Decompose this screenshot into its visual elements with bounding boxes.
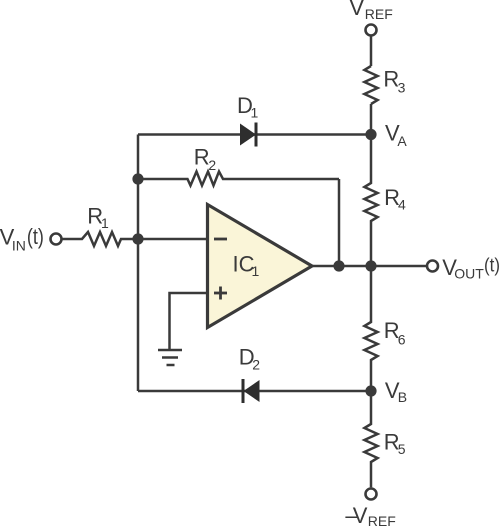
- svg-text:3: 3: [398, 80, 406, 96]
- label VIN(t): [0, 224, 44, 254]
- label R4: [384, 185, 406, 213]
- svg-text:IN: IN: [12, 237, 26, 253]
- svg-text:REF: REF: [365, 6, 393, 22]
- label R6: [384, 318, 406, 348]
- wire output node to R6, resistor R6, to node B: [364, 266, 377, 391]
- op-amp IC1: [208, 205, 313, 328]
- wire node to opamp minus input: [138, 238, 208, 241]
- diode D1: [240, 123, 256, 147]
- label R3: [383, 67, 405, 96]
- svg-text:OUT: OUT: [454, 266, 484, 282]
- wire VREF terminal to R3: [370, 37, 373, 67]
- svg-text:6: 6: [398, 332, 406, 348]
- wire left rail: [137, 135, 140, 392]
- svg-text:2: 2: [208, 157, 216, 173]
- svg-text:5: 5: [398, 441, 406, 457]
- node R2 junction: [132, 173, 143, 184]
- label VB: [385, 378, 407, 405]
- node R1 junction: [132, 233, 143, 244]
- node B: [365, 385, 376, 396]
- label VREF: [349, 0, 392, 22]
- svg-text:1: 1: [252, 263, 260, 279]
- svg-text:4: 4: [398, 197, 406, 213]
- wire R2 branch with resistor R2: [138, 172, 339, 186]
- label IC1: [233, 252, 260, 280]
- node A: [365, 129, 376, 140]
- node output-left: [333, 260, 344, 271]
- label VA: [385, 121, 407, 149]
- ground: [158, 350, 182, 365]
- resistor R3: [364, 66, 377, 104]
- label D1: [237, 93, 259, 121]
- wire node A to R4, resistor R4, to output node: [364, 135, 377, 267]
- svg-text:REF: REF: [368, 513, 396, 526]
- label R1: [87, 203, 109, 231]
- terminal -VREF: [366, 489, 377, 500]
- op-amp plus pin: [214, 287, 227, 300]
- diode D2: [243, 379, 260, 403]
- label R5: [384, 429, 406, 457]
- wire D2 horizontal: [138, 390, 371, 393]
- svg-text:R: R: [194, 145, 210, 170]
- terminal VIN: [51, 234, 62, 245]
- label -VREF: [345, 503, 395, 526]
- wire node B to R5, resistor R5, to -VREF terminal: [364, 391, 377, 487]
- terminal VREF: [366, 25, 377, 36]
- svg-text:1: 1: [251, 105, 259, 121]
- svg-text:V: V: [353, 503, 368, 526]
- svg-text:1: 1: [101, 215, 109, 231]
- label VOUT(t): [442, 255, 500, 282]
- svg-text:2: 2: [252, 357, 260, 373]
- wire D1 horizontal: [138, 133, 371, 136]
- wire R3 to node A: [370, 104, 373, 135]
- wire Vin + resistor R1: [62, 232, 138, 246]
- node output-right: [365, 260, 376, 271]
- label D2: [239, 345, 260, 373]
- label R2: [194, 145, 217, 174]
- wire R2 down to output: [338, 179, 341, 266]
- svg-text:V: V: [349, 0, 364, 20]
- svg-text:B: B: [398, 389, 407, 405]
- op-amp minus pin: [214, 238, 227, 241]
- svg-text:A: A: [397, 133, 407, 149]
- wire output: [312, 265, 426, 268]
- svg-text:(t): (t): [27, 224, 44, 249]
- terminal VOUT: [427, 261, 438, 272]
- wire opamp plus input to ground: [170, 293, 208, 350]
- svg-text:(t): (t): [484, 256, 500, 277]
